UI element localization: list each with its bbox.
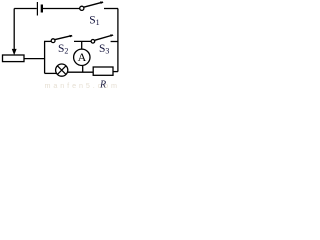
svg-text:S2: S2 (58, 43, 68, 56)
svg-text:manfen5.com: manfen5.com (45, 81, 120, 90)
svg-text:A: A (78, 50, 87, 64)
svg-text:S3: S3 (99, 43, 109, 56)
svg-text:S1: S1 (89, 15, 99, 28)
